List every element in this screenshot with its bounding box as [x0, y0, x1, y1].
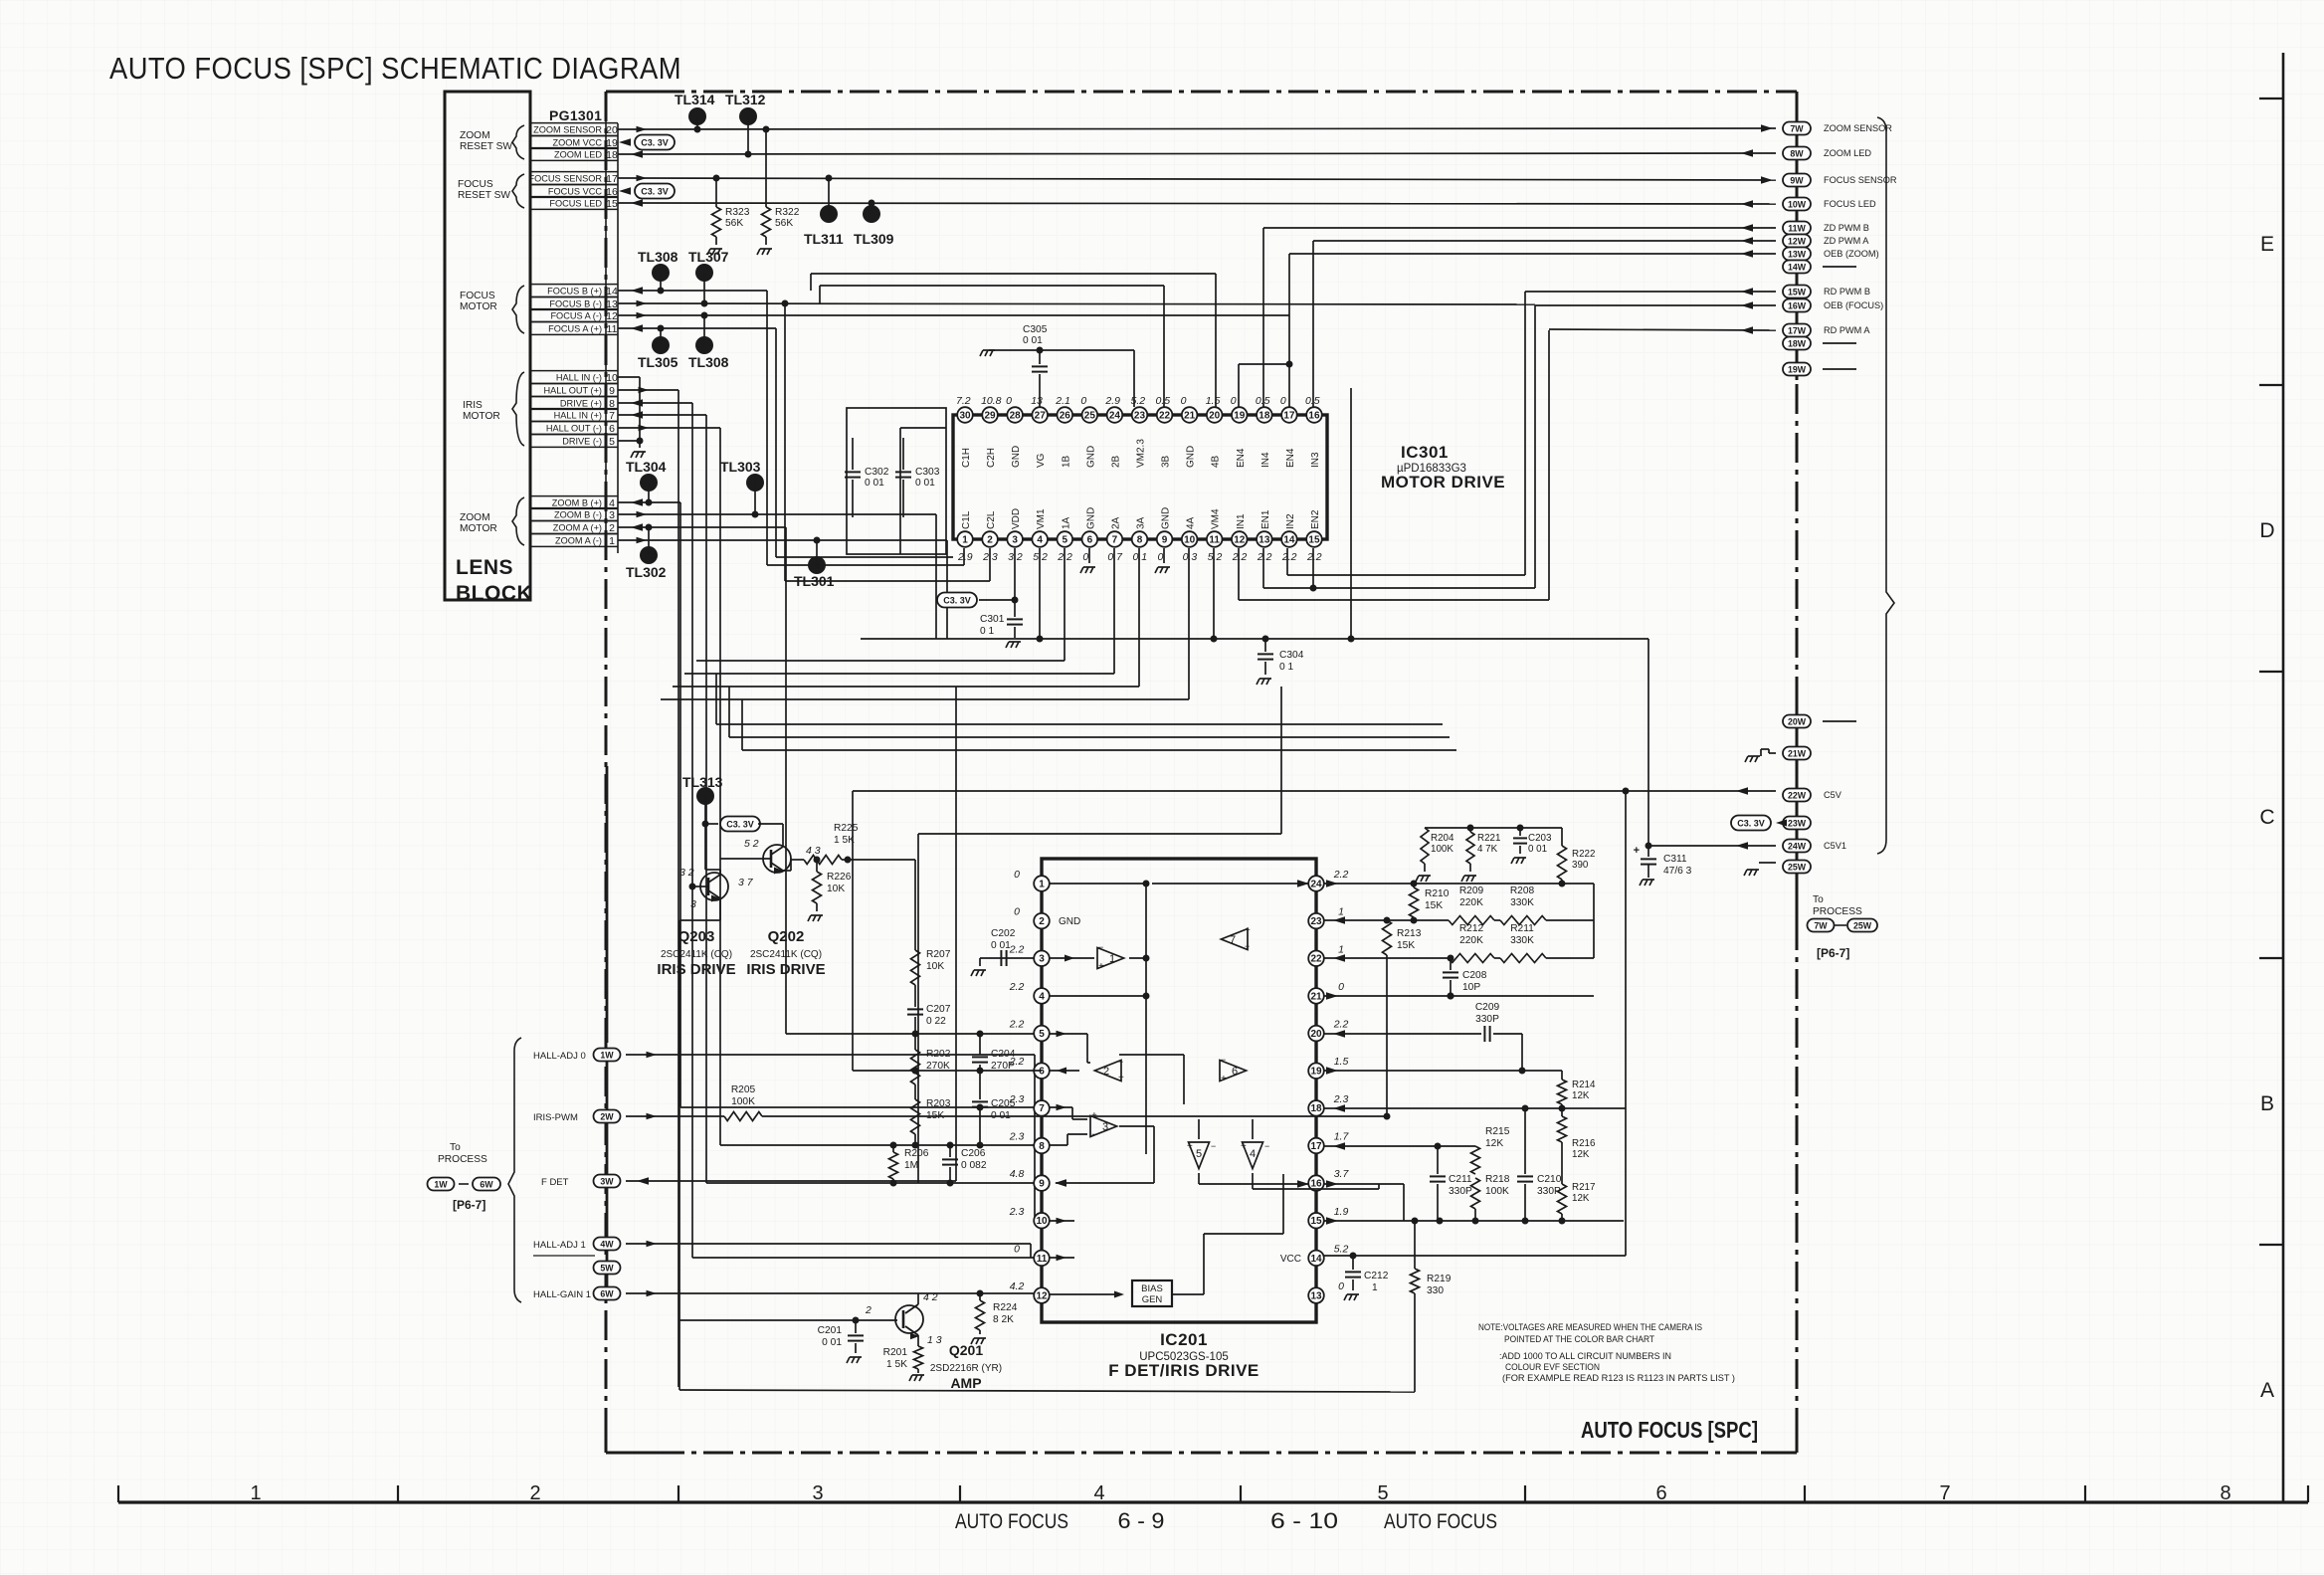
svg-text:VM2.3: VM2.3 — [1135, 439, 1146, 468]
PG1301 pin 5 DRIVE (-) — [530, 434, 618, 436]
svg-text:0: 0 — [1006, 395, 1012, 407]
svg-text:6 - 10: 6 - 10 — [1270, 1508, 1338, 1533]
svg-text:4W: 4W — [600, 1240, 614, 1250]
ground C305 net — [980, 350, 995, 356]
svg-text:FOCUS A (+): FOCUS A (+) — [548, 323, 602, 333]
svg-text:TL309: TL309 — [854, 231, 894, 247]
resistor R203 — [911, 1099, 920, 1134]
svg-text:330K: 330K — [1510, 897, 1534, 908]
wire bundle zoom3 — [1280, 687, 1282, 834]
svg-text:11: 11 — [1037, 1254, 1048, 1265]
PG1301 pin 13 FOCUS B (-) — [530, 296, 618, 298]
connector pin 20W — [1783, 715, 1811, 728]
svg-text:F DET/IRIS DRIVE: F DET/IRIS DRIVE — [1108, 1361, 1259, 1380]
svg-text:330P: 330P — [1475, 1014, 1499, 1025]
resistor R323 — [715, 178, 717, 207]
svg-text:1: 1 — [250, 1482, 261, 1504]
svg-text:14W: 14W — [1788, 263, 1807, 273]
svg-text:28: 28 — [1010, 410, 1022, 421]
wire bundle zoom2 — [785, 527, 787, 1034]
svg-text:8W: 8W — [1790, 149, 1804, 159]
svg-text:47/6 3: 47/6 3 — [1663, 866, 1692, 877]
wire 13W OEB ZOOM — [1289, 253, 1776, 255]
ground for DRIVE(-) — [639, 441, 641, 448]
svg-text:2.2: 2.2 — [1333, 869, 1349, 881]
svg-text:1: 1 — [1109, 953, 1115, 965]
svg-text:IC201: IC201 — [1160, 1330, 1208, 1349]
svg-text:C2L: C2L — [986, 510, 997, 529]
svg-text:10: 10 — [606, 372, 618, 384]
svg-text:1.5: 1.5 — [1334, 1056, 1349, 1068]
IC301 pin 6 GND — [1082, 531, 1098, 547]
connector pin 9W FOCUS SENSOR — [1783, 174, 1811, 187]
svg-text:6W: 6W — [480, 1180, 493, 1190]
wire pin15 EN2 join — [1312, 548, 1314, 588]
svg-text:HALL IN (-): HALL IN (-) — [556, 372, 602, 382]
svg-text:0 01: 0 01 — [991, 1110, 1011, 1121]
svg-text:(FOR EXAMPLE READ R123 IS R112: (FOR EXAMPLE READ R123 IS R1123 IN PARTS… — [1502, 1372, 1735, 1383]
op-amp 5 — [1189, 1142, 1210, 1169]
svg-text:0 01: 0 01 — [991, 940, 1011, 951]
svg-text:0 1: 0 1 — [980, 626, 994, 637]
svg-text:0: 0 — [1338, 1280, 1344, 1292]
wire pin21 line — [1324, 995, 1594, 997]
IC301 pin 14 IN2 — [1281, 531, 1297, 547]
svg-text:13: 13 — [1310, 1290, 1322, 1301]
IC IC201 body — [1042, 859, 1316, 1322]
svg-text:+: + — [1245, 925, 1251, 936]
resistor R215 — [1471, 1146, 1480, 1174]
svg-text:7W: 7W — [1814, 921, 1828, 931]
capacitor C304 — [1264, 639, 1266, 652]
svg-text:R215: R215 — [1485, 1126, 1510, 1137]
PG1301 pin 9 HALL OUT (+) — [530, 383, 618, 385]
svg-text:100K: 100K — [1485, 1186, 1509, 1197]
svg-text:6 - 9: 6 - 9 — [1118, 1508, 1165, 1533]
connector pin 4W HALL-ADJ 1 — [594, 1238, 621, 1251]
IC301 pin 11 VM4 — [1207, 531, 1223, 547]
svg-text:25: 25 — [1084, 410, 1096, 421]
svg-text:7.2: 7.2 — [956, 395, 971, 407]
op-amp 2 — [1094, 1061, 1121, 1082]
svg-text:6: 6 — [609, 423, 615, 435]
svg-text:TL311: TL311 — [804, 231, 844, 247]
frame right solid — [1796, 92, 1799, 380]
svg-text:2SC2411K (CQ): 2SC2411K (CQ) — [750, 949, 822, 960]
svg-text:3 2: 3 2 — [679, 867, 694, 879]
svg-text:2: 2 — [865, 1304, 871, 1316]
wire 11W ZD PWM B — [1263, 227, 1776, 229]
op-amp 4 — [1243, 1142, 1263, 1169]
resistor R218 — [1471, 1178, 1480, 1209]
svg-text:PROCESS: PROCESS — [1813, 906, 1862, 917]
svg-text:D: D — [2259, 519, 2274, 542]
svg-text:5: 5 — [1039, 1029, 1045, 1040]
svg-text:−: − — [1211, 1141, 1216, 1151]
svg-text:C205: C205 — [991, 1098, 1016, 1109]
svg-text:2: 2 — [1039, 916, 1045, 927]
svg-text:R218: R218 — [1485, 1174, 1510, 1185]
wire pin14 VCC line — [1324, 1255, 1626, 1257]
resistor R216 — [1558, 1116, 1567, 1142]
IC301 pin 26 1B — [1057, 407, 1072, 423]
wire VDD pin3 — [1014, 548, 1016, 600]
wire FOCUS A(+) 11 — [618, 327, 776, 329]
svg-text:10W: 10W — [1788, 200, 1807, 210]
connector pin 21W GND — [1783, 747, 1811, 760]
svg-text:Q202: Q202 — [768, 928, 805, 945]
wire ZOOM SENSOR 20 to 7W — [618, 128, 1776, 129]
svg-text:NOTE:VOLTAGES ARE MEASURED WHE: NOTE:VOLTAGES ARE MEASURED WHEN THE CAME… — [1478, 1321, 1702, 1332]
svg-text:4: 4 — [1093, 1482, 1104, 1504]
svg-text:7: 7 — [1039, 1103, 1045, 1114]
IC201 pin 13 — [1308, 1287, 1324, 1303]
svg-text:5: 5 — [1196, 1148, 1202, 1160]
svg-text:21: 21 — [1184, 410, 1196, 421]
svg-text:HALL-ADJ 0: HALL-ADJ 0 — [533, 1051, 586, 1062]
wire FOCUS VCC 16 — [619, 187, 631, 195]
svg-text:4 7K: 4 7K — [1477, 844, 1498, 855]
IC201 pin 21 — [1308, 988, 1324, 1004]
svg-text:5.2: 5.2 — [1130, 395, 1145, 407]
wire pin8 3A — [1138, 548, 1140, 687]
svg-text:15K: 15K — [1397, 940, 1415, 951]
svg-text:VDD: VDD — [1011, 508, 1022, 529]
capacitor C204 — [979, 1034, 981, 1055]
wire bundle left vertical 6 — [719, 428, 721, 1145]
transistor Q203 — [700, 873, 728, 900]
PG1301 pin 1 ZOOM A (-) — [530, 533, 618, 535]
svg-text:HALL OUT (+): HALL OUT (+) — [544, 385, 602, 395]
svg-text:12K: 12K — [1485, 1138, 1503, 1149]
resistor R208 — [1494, 919, 1500, 921]
svg-text:25W: 25W — [1788, 863, 1807, 873]
svg-text:−: − — [1264, 1141, 1269, 1151]
svg-text:6: 6 — [1087, 534, 1093, 545]
PG1301 pin 2 ZOOM A (+) — [530, 520, 618, 522]
IC201 pin 19 — [1308, 1063, 1324, 1079]
wire VM net C5V1 — [861, 638, 1648, 640]
svg-text:EN4: EN4 — [1285, 448, 1296, 468]
svg-text:C303: C303 — [915, 467, 940, 478]
svg-text:AUTO FOCUS [SPC]: AUTO FOCUS [SPC] — [1581, 1417, 1758, 1443]
svg-text:0: 0 — [1181, 395, 1187, 407]
svg-text:2SC2411K (CQ): 2SC2411K (CQ) — [661, 949, 732, 960]
svg-text:1M: 1M — [904, 1160, 918, 1171]
svg-text:30: 30 — [959, 410, 971, 421]
svg-text:0: 0 — [1082, 551, 1088, 563]
svg-text:MOTOR: MOTOR — [460, 301, 497, 312]
svg-text:9: 9 — [609, 385, 615, 397]
capacitor C311 — [1641, 858, 1656, 860]
svg-text:ZOOM: ZOOM — [460, 130, 490, 141]
svg-text:1W: 1W — [434, 1180, 448, 1190]
PG1301 pin 11 FOCUS A (+) — [530, 321, 618, 323]
capacitor C211 — [1437, 1146, 1439, 1174]
svg-text:HALL-ADJ 1: HALL-ADJ 1 — [533, 1240, 586, 1251]
svg-text:4A: 4A — [1186, 516, 1197, 529]
svg-text:0: 0 — [1231, 395, 1237, 407]
svg-text:C210: C210 — [1537, 1174, 1562, 1185]
svg-text:13: 13 — [1259, 534, 1270, 545]
svg-text:18: 18 — [1259, 410, 1270, 421]
wire pin17 line — [1324, 1145, 1475, 1147]
svg-text:3: 3 — [690, 898, 696, 910]
resistor R217 — [1558, 1184, 1567, 1214]
svg-text:C1H: C1H — [961, 448, 972, 468]
wire bundle left vertical 9 — [678, 390, 679, 1387]
svg-text:10: 10 — [1036, 1216, 1048, 1227]
svg-text:3A: 3A — [1135, 516, 1146, 529]
wire cluster top — [1425, 827, 1562, 829]
svg-text:ZOOM B (+): ZOOM B (+) — [552, 497, 602, 507]
svg-text:MOTOR: MOTOR — [460, 523, 497, 534]
svg-text:C2H: C2H — [986, 448, 997, 468]
IC301 pin 2 C2L — [982, 531, 998, 547]
resistor R214 — [1558, 1080, 1567, 1104]
PG1301 pin 16 FOCUS VCC — [530, 184, 618, 186]
wire pin18 line — [1324, 1107, 1626, 1109]
svg-text:3: 3 — [1039, 954, 1045, 965]
svg-text:8: 8 — [2220, 1482, 2230, 1504]
svg-text:17: 17 — [1283, 410, 1295, 421]
connector pin 1W HALL-ADJ 0 — [594, 1049, 621, 1062]
resistor R221 — [1469, 828, 1471, 832]
IC201 internal wires — [1049, 883, 1146, 885]
svg-text:R224: R224 — [993, 1302, 1018, 1313]
svg-text:R214: R214 — [1572, 1080, 1596, 1090]
svg-text:5.2: 5.2 — [1334, 1243, 1349, 1255]
transistor Q202 — [763, 845, 791, 873]
svg-text:FOCUS B (+): FOCUS B (+) — [547, 286, 602, 295]
PG1301 pin 20 ZOOM SENSOR — [530, 122, 618, 124]
svg-text:[P6-7]: [P6-7] — [1817, 946, 1849, 960]
svg-text:1: 1 — [1039, 879, 1045, 889]
svg-text:−: − — [1221, 1055, 1226, 1065]
svg-text:C3. 3V: C3. 3V — [726, 820, 754, 830]
wire FOCUS A(-) 12 — [618, 314, 1289, 316]
svg-text:12K: 12K — [1572, 1090, 1590, 1101]
connector pin 14W — [1783, 261, 1811, 274]
wire pin7 2A — [1113, 548, 1115, 674]
svg-text:19W: 19W — [1788, 365, 1807, 375]
svg-text:0: 0 — [1080, 395, 1086, 407]
25W ground — [1759, 862, 1776, 864]
resistor R211 — [1494, 957, 1500, 959]
24W C5V1 wire — [1648, 845, 1776, 847]
wire 16W link — [1535, 304, 1776, 306]
22W C5V wire — [1736, 787, 1748, 795]
ground IC301 pin6 — [1088, 548, 1090, 563]
svg-text:9: 9 — [1162, 534, 1168, 545]
IC201 pin 7 — [1034, 1100, 1050, 1116]
svg-text:56K: 56K — [725, 218, 743, 229]
connector pin 19W — [1783, 363, 1811, 376]
svg-text:C5V: C5V — [1824, 790, 1842, 800]
svg-text:IN3: IN3 — [1310, 452, 1321, 468]
svg-text:2A: 2A — [1110, 516, 1121, 529]
svg-text:TL302: TL302 — [626, 564, 667, 580]
svg-text:0.5: 0.5 — [1256, 395, 1270, 407]
svg-text:AMP: AMP — [950, 1375, 981, 1391]
resistor R202 — [914, 1034, 916, 1050]
svg-text:R217: R217 — [1572, 1182, 1595, 1193]
svg-text:0: 0 — [1158, 551, 1164, 563]
svg-text:+: + — [1098, 961, 1104, 972]
connector pin 11W ZD PWM B — [1783, 222, 1811, 235]
svg-text:1: 1 — [962, 534, 968, 545]
svg-text:21W: 21W — [1788, 749, 1807, 759]
svg-text:TL314: TL314 — [675, 92, 715, 107]
IC301 pin 15 EN2 — [1306, 531, 1322, 547]
connector pin 22W C5V — [1783, 789, 1811, 802]
svg-text:6: 6 — [1232, 1066, 1238, 1078]
IC301 pin 4 VM1 — [1032, 531, 1048, 547]
right curly brace for W pins — [1877, 117, 1894, 854]
svg-text:FOCUS SENSOR: FOCUS SENSOR — [528, 173, 602, 183]
wire FOCUS SENSOR 17 to 9W — [618, 178, 1776, 180]
svg-text:C3. 3V: C3. 3V — [641, 187, 669, 197]
svg-text:R201: R201 — [883, 1347, 908, 1358]
IC301 pin 17 EN4 — [1281, 407, 1297, 423]
IC201 pin 24 — [1308, 876, 1324, 891]
IC201 pin 23 — [1308, 913, 1324, 929]
C3.3V oval pin19 — [635, 135, 675, 150]
PG1301 pin 7 HALL IN (+) — [530, 408, 618, 410]
svg-text:12K: 12K — [1572, 1149, 1590, 1160]
svg-text:20: 20 — [1209, 410, 1221, 421]
PG1301 pin 3 ZOOM B (-) — [530, 507, 618, 509]
svg-text:GND: GND — [1011, 446, 1022, 468]
svg-text:GND: GND — [1085, 507, 1096, 529]
resistor R226 — [816, 860, 818, 872]
wire ZOOM B(-) 3 — [618, 513, 936, 515]
svg-text:2: 2 — [1103, 1066, 1109, 1078]
svg-text:C302: C302 — [865, 467, 889, 478]
svg-text:0: 0 — [1014, 906, 1020, 918]
svg-text:RD PWM A: RD PWM A — [1824, 325, 1870, 335]
21W ground — [1761, 748, 1769, 750]
svg-text:11: 11 — [1209, 534, 1220, 545]
wire FOCUS LED 15 to 10W — [618, 203, 1776, 204]
capacitor C203 — [1519, 828, 1521, 836]
svg-text:+: + — [1241, 1141, 1247, 1152]
wire pin11 drop — [1213, 548, 1215, 639]
wires above IC301 arc — [811, 273, 1216, 275]
svg-text:20: 20 — [606, 124, 618, 136]
PG1301 pin 14 FOCUS B (+) — [530, 284, 618, 286]
svg-text:7: 7 — [1230, 934, 1236, 946]
op-amp 6 — [1220, 1061, 1247, 1082]
svg-text:IRIS DRIVE: IRIS DRIVE — [657, 961, 735, 978]
svg-text:R206: R206 — [904, 1148, 929, 1159]
svg-text:0 01: 0 01 — [822, 1337, 842, 1348]
PG1301 pin 15 FOCUS LED — [530, 196, 618, 198]
svg-text:0: 0 — [1014, 1243, 1020, 1255]
capacitor C205 — [979, 1071, 981, 1099]
IC201 pin 17 — [1308, 1138, 1324, 1154]
svg-text:ZOOM A (-): ZOOM A (-) — [555, 535, 602, 545]
svg-text:IRIS: IRIS — [463, 400, 483, 411]
svg-text:4.2: 4.2 — [1010, 1280, 1025, 1292]
PG1301 pin 17 FOCUS SENSOR — [530, 171, 618, 173]
IC201 pin 22 — [1308, 950, 1324, 966]
svg-text:Q203: Q203 — [678, 928, 715, 945]
svg-text:22: 22 — [1159, 410, 1171, 421]
svg-text:0: 0 — [1280, 395, 1286, 407]
IC301 pin 27 VG — [1032, 407, 1048, 423]
op-amp 7 — [1221, 929, 1248, 950]
wire pin10 4A — [1188, 548, 1190, 699]
IC301 pin 24 2B — [1107, 407, 1123, 423]
svg-text:5W: 5W — [600, 1264, 614, 1274]
svg-text:FOCUS: FOCUS — [458, 179, 493, 190]
svg-text:1W: 1W — [600, 1051, 614, 1061]
wire C305 net — [989, 349, 1134, 351]
frame corners solid — [606, 91, 657, 94]
svg-text:ZOOM LED: ZOOM LED — [554, 149, 602, 159]
wire ZOOM VCC 19 — [619, 138, 631, 146]
svg-text:100K: 100K — [1431, 844, 1453, 855]
svg-text:10P: 10P — [1462, 982, 1480, 993]
IC201 pin 9 — [1034, 1175, 1050, 1191]
svg-text:AUTO FOCUS: AUTO FOCUS — [1384, 1510, 1497, 1533]
svg-text:13W: 13W — [1788, 250, 1807, 260]
wire C5V net — [853, 790, 1776, 792]
wire pin4 drop — [1039, 548, 1041, 639]
svg-text:C201: C201 — [818, 1325, 843, 1336]
svg-text:TL305: TL305 — [638, 354, 678, 370]
connector pin 17W RD PWM A — [1783, 324, 1811, 337]
test point TL309 — [863, 205, 880, 223]
svg-text:3: 3 — [609, 509, 615, 521]
svg-text:C304: C304 — [1279, 650, 1304, 661]
svg-text:FOCUS B (-): FOCUS B (-) — [549, 298, 602, 308]
svg-text:0 01: 0 01 — [1528, 844, 1547, 855]
svg-text:6: 6 — [1655, 1482, 1666, 1504]
wire pin22 line — [1324, 957, 1449, 959]
svg-text:25W: 25W — [1853, 921, 1872, 931]
svg-text:R209: R209 — [1459, 886, 1484, 896]
svg-text:10K: 10K — [926, 961, 944, 972]
svg-text:23W: 23W — [1788, 819, 1807, 829]
svg-text:7: 7 — [609, 410, 615, 422]
bottom ruler — [118, 1500, 2308, 1503]
svg-text:56K: 56K — [775, 218, 793, 229]
connector PG1301 pin table — [529, 123, 531, 546]
svg-text:18: 18 — [606, 149, 618, 161]
svg-text:15K: 15K — [1425, 900, 1443, 911]
svg-text:0.5: 0.5 — [1156, 395, 1171, 407]
IC301 pin 9 GND — [1157, 531, 1173, 547]
svg-text:BIAS: BIAS — [1141, 1283, 1163, 1294]
svg-text:C305: C305 — [1023, 324, 1048, 335]
svg-text:TL303: TL303 — [720, 459, 761, 475]
PG1301 pin 18 ZOOM LED — [530, 147, 618, 149]
svg-text:TL304: TL304 — [626, 459, 667, 475]
svg-text:2.2: 2.2 — [1281, 551, 1297, 563]
svg-text:IC301: IC301 — [1401, 443, 1449, 462]
svg-text:0.3: 0.3 — [1183, 551, 1198, 563]
svg-text:0.5: 0.5 — [1305, 395, 1320, 407]
svg-text:4B: 4B — [1211, 455, 1222, 468]
wire pin23 line — [1324, 919, 1449, 921]
svg-text:24W: 24W — [1788, 842, 1807, 852]
svg-text:3W: 3W — [600, 1177, 614, 1187]
svg-text:2.2: 2.2 — [1306, 551, 1322, 563]
IC201 pin 20 — [1308, 1026, 1324, 1042]
svg-text:GEN: GEN — [1142, 1294, 1163, 1305]
